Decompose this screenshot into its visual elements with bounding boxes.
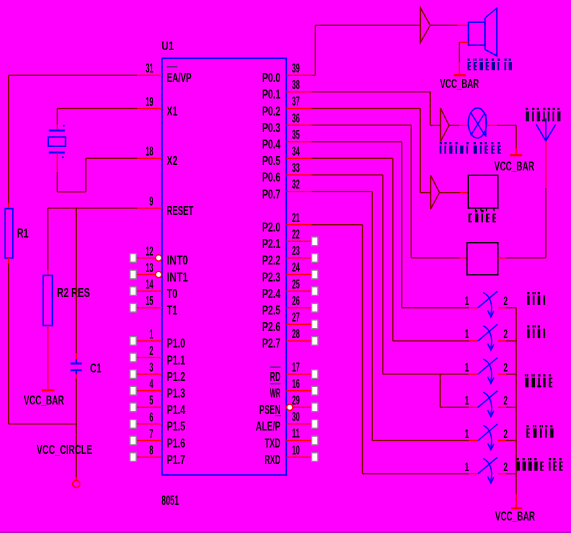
svg-text:P1.1: P1.1 xyxy=(167,352,185,367)
crystal Y1 top plate xyxy=(49,130,65,132)
wire RESET run xyxy=(48,207,137,209)
wire into amp U3 xyxy=(430,124,440,126)
svg-text:30: 30 xyxy=(292,409,300,424)
svg-text:VCC_BAR: VCC_BAR xyxy=(495,509,535,524)
pin P1.4 (5) xyxy=(137,406,162,408)
svg-text:P2.2: P2.2 xyxy=(262,253,280,268)
svg-text:1: 1 xyxy=(465,329,470,341)
svg-text:WR: WR xyxy=(270,386,281,401)
svg-text:34: 34 xyxy=(292,144,300,159)
wire P0.6 to switch row xyxy=(312,174,383,176)
wire top run to amp U2 xyxy=(315,24,420,26)
wire lamp to corner xyxy=(497,124,516,126)
R1 bottom lead xyxy=(8,258,10,264)
wire branch row3 to row4 xyxy=(439,374,441,407)
pin P0.1 (38) xyxy=(286,91,311,93)
wire antenna column xyxy=(545,188,547,258)
label switch row2 (CJK) xyxy=(527,325,529,327)
wire R1 to bottom rail xyxy=(8,264,10,425)
svg-text:2: 2 xyxy=(504,462,508,474)
R1 top lead xyxy=(8,204,10,209)
wire X1 run xyxy=(57,108,137,110)
crystal bottom lead xyxy=(56,153,58,173)
svg-text:32: 32 xyxy=(292,177,300,192)
pin INT0 (12) xyxy=(137,257,156,259)
VCC stem (rail) xyxy=(515,494,517,507)
power port VCC_BAR bar (lamp) xyxy=(510,154,522,156)
speaker LS1 cone xyxy=(484,18,486,50)
svg-text:5: 5 xyxy=(149,393,153,408)
svg-text:31: 31 xyxy=(146,61,154,76)
wire P2.0 to switch row xyxy=(312,224,363,226)
wire elbow up to X2 level xyxy=(85,158,87,192)
wire P0.2 run xyxy=(312,108,421,110)
C1 bottom lead xyxy=(75,374,77,378)
svg-text:1: 1 xyxy=(465,396,470,408)
wire U2 out xyxy=(430,24,457,26)
svg-text:INT0: INT0 xyxy=(167,253,188,268)
svg-text:18: 18 xyxy=(146,144,154,159)
power port VCC_BAR bar (left) xyxy=(42,389,55,391)
label antenna (CJK) xyxy=(526,108,528,110)
wire P0.4 to switch row xyxy=(312,141,402,143)
svg-text:P2.3: P2.3 xyxy=(262,269,280,284)
svg-text:P1.3: P1.3 xyxy=(167,386,185,401)
pin PSEN (29) xyxy=(292,406,311,408)
svg-text:P2.4: P2.4 xyxy=(262,286,281,301)
svg-text:1: 1 xyxy=(465,462,470,474)
crystal pin dots xyxy=(63,125,65,127)
svg-text:P1.2: P1.2 xyxy=(167,369,185,384)
antenna stem xyxy=(545,141,547,188)
VCC_BAR stem left xyxy=(47,382,49,390)
svg-text:28: 28 xyxy=(292,326,300,341)
wire P0.5 to switch row xyxy=(312,157,393,159)
svg-text:2: 2 xyxy=(504,396,508,408)
svg-text:INT1: INT1 xyxy=(167,269,188,284)
svg-text:25: 25 xyxy=(292,276,300,291)
svg-text:2: 2 xyxy=(504,296,508,308)
transmitter module box xyxy=(467,243,498,275)
svg-text:VCC_BAR: VCC_BAR xyxy=(494,158,534,173)
pin P0.2 (37) xyxy=(286,108,311,110)
svg-text:VCC_CIRCLE: VCC_CIRCLE xyxy=(37,442,93,457)
svg-text:EA/VP: EA/VP xyxy=(167,70,192,85)
pin ALE/P (30) xyxy=(286,423,311,425)
svg-text:22: 22 xyxy=(292,227,300,242)
svg-text:RXD: RXD xyxy=(265,452,281,467)
pin P2.3 (24) xyxy=(286,274,311,276)
svg-text:2: 2 xyxy=(504,329,508,341)
pin P0.4 (35) xyxy=(286,141,311,143)
svg-text:14: 14 xyxy=(146,277,154,292)
wire P0.1 down xyxy=(429,92,431,126)
svg-text:17: 17 xyxy=(292,359,300,374)
svg-text:R2 RES: R2 RES xyxy=(57,285,90,300)
C1 top lead xyxy=(75,353,77,359)
relay K1 box xyxy=(468,175,498,208)
speaker bottom stub xyxy=(459,41,468,43)
lamp DS1 xyxy=(468,108,486,138)
wire speaker to power xyxy=(458,42,460,62)
wire crystal down xyxy=(56,172,58,192)
svg-text:P1.5: P1.5 xyxy=(167,419,185,434)
wire RESET down to R2 xyxy=(47,208,49,270)
svg-text:1: 1 xyxy=(465,296,470,308)
label switch row5 (CJK) xyxy=(526,425,528,427)
pin P2.4 (25) xyxy=(286,290,311,292)
resistor R1 xyxy=(5,209,13,258)
wire rail down to power xyxy=(75,424,77,477)
wire P0.3 down xyxy=(410,125,412,258)
svg-text:P2.0: P2.0 xyxy=(262,220,280,235)
svg-text:16: 16 xyxy=(292,376,300,391)
svg-text:P0.4: P0.4 xyxy=(262,137,281,152)
wire X2 run xyxy=(86,157,137,159)
svg-text:P2.5: P2.5 xyxy=(262,303,280,318)
wire crystal elbow bottom xyxy=(57,191,86,193)
lamp right stub xyxy=(487,124,498,126)
pin X2 (18) xyxy=(137,157,162,159)
pin EA/VP (31) xyxy=(137,74,162,76)
pin RXD (10) xyxy=(286,456,311,458)
pin WR (16) xyxy=(286,390,311,392)
wire bottom rail xyxy=(9,423,77,425)
pin INT1 (13) xyxy=(137,274,156,276)
resistor R2 xyxy=(43,275,52,325)
svg-text:23: 23 xyxy=(292,243,300,258)
bottom window edge xyxy=(0,532,571,533)
speaker LS1 box xyxy=(469,22,486,45)
svg-text:P0.6: P0.6 xyxy=(262,170,280,185)
svg-text:21: 21 xyxy=(292,210,300,225)
wire P0.0 to top corner xyxy=(312,74,316,76)
label switch row6 (CJK) xyxy=(517,458,519,460)
relay left stub xyxy=(460,192,468,194)
switch S6 xyxy=(469,473,478,475)
svg-text:39: 39 xyxy=(292,61,300,76)
pin P0.7 (32) xyxy=(286,191,311,193)
pin P1.1 (2) xyxy=(137,357,162,359)
op IC body U1 8051 xyxy=(162,58,286,475)
svg-text:7: 7 xyxy=(149,426,153,441)
R2 bottom lead xyxy=(47,326,49,334)
wire P0.3 run xyxy=(312,124,412,126)
svg-text:13: 13 xyxy=(146,260,154,275)
pin P1.6 (7) xyxy=(137,440,162,442)
buffer amp U3 (lamp driver) xyxy=(441,108,450,141)
wire C1 bottom to rail xyxy=(75,379,77,425)
power port VCC_BAR bar (bottom) xyxy=(511,507,522,509)
svg-text:15: 15 xyxy=(146,293,154,308)
R2 top lead xyxy=(47,270,49,275)
switch S2 xyxy=(469,340,478,342)
svg-text:P0.0: P0.0 xyxy=(262,70,280,85)
wire box2 to antenna column xyxy=(506,257,546,259)
pin P2.6 (27) xyxy=(286,323,311,325)
wire left edge down to R1 xyxy=(8,75,10,203)
svg-text:P0.3: P0.3 xyxy=(262,120,280,135)
svg-text:VCC_BAR: VCC_BAR xyxy=(440,76,479,91)
svg-text:VCC_BAR: VCC_BAR xyxy=(24,392,65,407)
svg-text:P0.7: P0.7 xyxy=(262,186,280,201)
wire C1 top to RESET xyxy=(75,208,77,353)
svg-text:36: 36 xyxy=(292,110,300,125)
pin RD (17) xyxy=(286,373,311,375)
pin P0.6 (33) xyxy=(286,174,311,176)
svg-text:P1.6: P1.6 xyxy=(167,435,185,450)
wire switch common rail xyxy=(515,308,517,494)
wire EA/VP to left edge xyxy=(9,74,137,76)
svg-text:R1: R1 xyxy=(17,226,29,241)
svg-text:P0.5: P0.5 xyxy=(262,153,280,168)
switch S5 xyxy=(469,440,478,442)
svg-text:TXD: TXD xyxy=(265,435,281,450)
svg-text:T1: T1 xyxy=(167,303,178,318)
label switch row3/4 (CJK) xyxy=(525,374,526,376)
wire R2 to power bar xyxy=(47,333,49,382)
svg-text:37: 37 xyxy=(292,94,300,109)
svg-text:2: 2 xyxy=(504,429,508,441)
svg-text:RD: RD xyxy=(270,369,281,384)
speaker top stub xyxy=(458,24,469,26)
pin TXD (11) xyxy=(286,440,311,442)
pin P1.2 (3) xyxy=(137,373,162,375)
label switch row1 (CJK) xyxy=(527,292,529,294)
pin P2.1 (22) xyxy=(286,240,311,242)
power port VCC_CIRCLE circle xyxy=(73,480,80,487)
svg-text:P2.6: P2.6 xyxy=(262,319,280,334)
VCC stem (lamp) xyxy=(515,148,517,155)
pin P2.7 (28) xyxy=(286,340,311,342)
svg-text:U1: U1 xyxy=(162,39,175,53)
svg-text:12: 12 xyxy=(146,243,154,258)
svg-text:PSEN: PSEN xyxy=(259,402,280,417)
svg-text:26: 26 xyxy=(292,293,300,308)
pin P1.0 (1) xyxy=(137,340,162,342)
svg-text:24: 24 xyxy=(292,260,300,275)
svg-text:1: 1 xyxy=(465,429,470,441)
wire X1 down to crystal xyxy=(56,109,58,125)
VCC_CIRCLE stem xyxy=(75,477,77,480)
svg-text:27: 27 xyxy=(292,310,300,325)
wire to box2 xyxy=(411,257,459,259)
svg-text:6: 6 xyxy=(149,409,153,424)
svg-text:8: 8 xyxy=(149,443,153,458)
svg-text:T0: T0 xyxy=(167,286,178,301)
wire U3 out xyxy=(449,124,459,126)
pin P2.0 (21) xyxy=(286,224,311,226)
capacitor C1 xyxy=(75,359,77,363)
svg-text:C1: C1 xyxy=(90,360,102,375)
wire up at x315 xyxy=(314,25,316,75)
lamp left stub xyxy=(459,124,468,126)
svg-text:29: 29 xyxy=(292,393,300,408)
crystal Y1 body xyxy=(48,137,65,146)
label relay (CJK) xyxy=(469,214,471,223)
buffer amp U4 (relay driver) xyxy=(431,175,440,209)
svg-text:33: 33 xyxy=(292,160,300,175)
pin P2.2 (23) xyxy=(286,257,311,259)
buffer amp U2 (speaker driver) xyxy=(420,8,430,43)
svg-text:3: 3 xyxy=(149,360,153,375)
svg-text:P1.0: P1.0 xyxy=(167,336,185,351)
svg-text:P0.2: P0.2 xyxy=(262,103,280,118)
switch S1 xyxy=(469,307,478,309)
svg-text:8051: 8051 xyxy=(162,492,179,508)
pin P0.5 (34) xyxy=(286,157,311,159)
pin P1.3 (4) xyxy=(137,390,162,392)
relay K1 pins xyxy=(475,208,477,211)
svg-text:11: 11 xyxy=(292,426,300,441)
box2 left stub xyxy=(460,257,468,259)
wire down to power (lamp) xyxy=(515,125,517,148)
wire P0.1 run xyxy=(312,91,431,93)
svg-text:35: 35 xyxy=(292,127,300,142)
power port VCC_BAR bar (speaker) xyxy=(454,74,466,76)
switch S3 xyxy=(469,373,478,375)
svg-text:P1.7: P1.7 xyxy=(167,452,185,467)
svg-text:ALE/P: ALE/P xyxy=(256,419,281,434)
pin P0.3 (36) xyxy=(286,124,311,126)
svg-text:1: 1 xyxy=(149,326,153,341)
svg-text:19: 19 xyxy=(146,94,154,109)
crystal Y1 bottom plate xyxy=(49,152,65,154)
antenna E1 xyxy=(536,124,546,140)
svg-text:38: 38 xyxy=(292,77,300,92)
svg-text:2: 2 xyxy=(504,362,508,374)
pin P2.5 (26) xyxy=(286,307,311,309)
svg-text:4: 4 xyxy=(149,376,153,391)
crystal top lead xyxy=(56,125,58,131)
pin P1.7 (8) xyxy=(137,456,162,458)
wire P0.7 to switch row xyxy=(312,191,373,193)
pin P1.5 (6) xyxy=(137,423,162,425)
svg-text:X2: X2 xyxy=(167,153,178,168)
wire U4 out xyxy=(440,192,461,194)
pin P0.0 (39) xyxy=(286,74,311,76)
pin X1 (19) xyxy=(137,108,162,110)
svg-text:P1.4: P1.4 xyxy=(167,402,186,417)
label lamp (CJK) xyxy=(440,142,442,144)
svg-text:2: 2 xyxy=(149,343,153,358)
svg-text:P2.7: P2.7 xyxy=(262,336,280,351)
svg-text:10: 10 xyxy=(292,442,300,457)
pin RESET (9) xyxy=(137,207,162,209)
label speaker (CJK) xyxy=(468,59,470,61)
svg-text:P2.1: P2.1 xyxy=(262,236,280,251)
svg-text:P0.1: P0.1 xyxy=(262,87,280,102)
switch S4 xyxy=(469,406,478,408)
wire into amp U4 xyxy=(420,192,430,194)
svg-text:9: 9 xyxy=(149,194,153,209)
svg-text:RESET: RESET xyxy=(167,203,194,218)
box2 right stub xyxy=(498,257,506,259)
VCC stem (speaker) xyxy=(458,62,460,75)
svg-text:X1: X1 xyxy=(167,103,178,118)
svg-text:1: 1 xyxy=(465,362,470,374)
pin T1 (15) xyxy=(137,307,162,309)
pin T0 (14) xyxy=(137,290,162,292)
wire P0.2 down xyxy=(419,109,421,193)
